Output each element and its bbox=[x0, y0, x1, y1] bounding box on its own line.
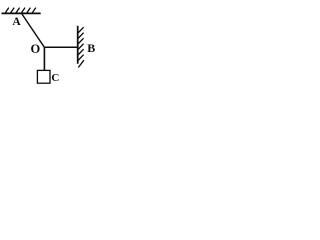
wall hatch 4 bbox=[78, 44, 84, 50]
rope wire O to block C bbox=[43, 47, 45, 70]
ceiling hatch 6 bbox=[32, 8, 36, 14]
svg-text:C: C bbox=[51, 72, 59, 84]
ceiling line bbox=[2, 12, 41, 14]
svg-text:A: A bbox=[12, 16, 21, 28]
block C box bbox=[37, 70, 50, 83]
svg-text:O: O bbox=[31, 42, 41, 56]
ceiling hatch 2 bbox=[10, 8, 14, 14]
wall hatch 1 bbox=[78, 27, 84, 33]
ceiling hatch 3 bbox=[16, 8, 20, 14]
wall hatch 2 bbox=[78, 33, 84, 39]
wall hatch 7 bbox=[78, 60, 84, 67]
svg-text:B: B bbox=[87, 41, 95, 55]
wall hatch 5 bbox=[78, 49, 84, 55]
ceiling hatch 1 bbox=[5, 8, 9, 14]
ceiling hatch 4 bbox=[21, 8, 25, 14]
rod A wire (diagonal from ceiling to O) bbox=[22, 14, 45, 48]
ceiling hatch 5 bbox=[27, 8, 31, 14]
wall B vertical line bbox=[77, 26, 79, 64]
horizontal strut wire O to wall B bbox=[44, 46, 78, 48]
wall hatch 3 bbox=[78, 38, 84, 44]
wall hatch 6 bbox=[78, 55, 84, 61]
